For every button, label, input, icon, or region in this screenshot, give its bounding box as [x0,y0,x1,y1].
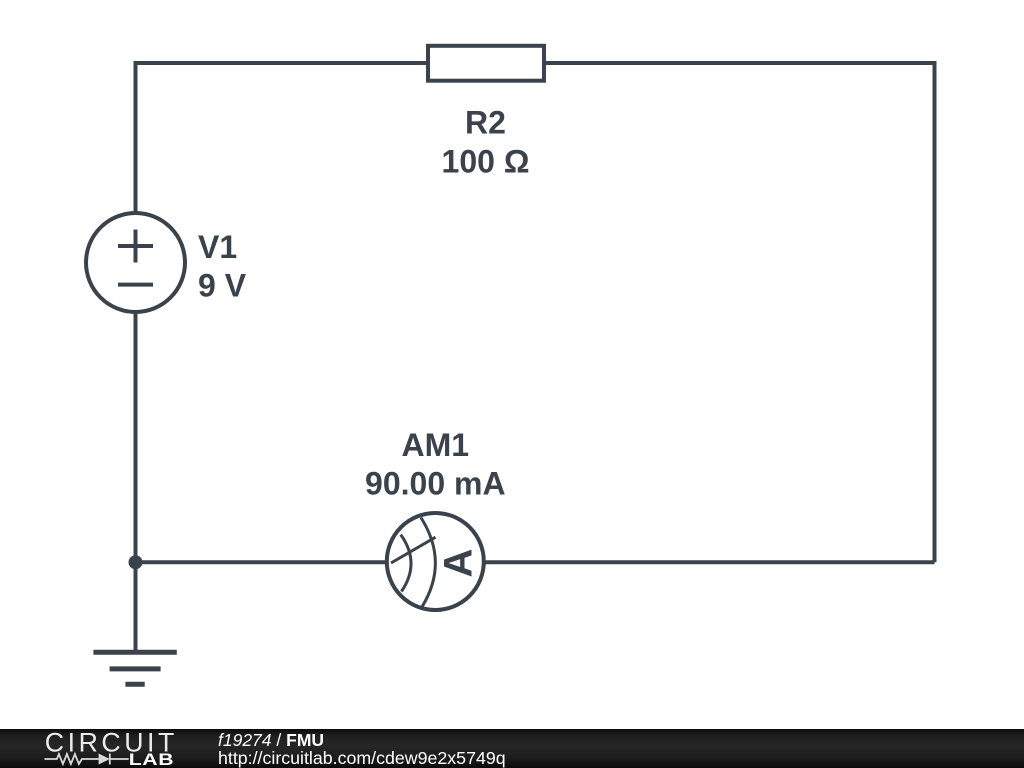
svg-text:A: A [437,549,481,578]
wire bottom-right segment [484,560,935,564]
wire top-left segment [136,61,429,65]
AM1 circle body [387,513,484,610]
footer text line 1 [218,732,324,750]
resistor R2 [428,46,544,81]
ground bar bottom [125,682,144,687]
svg-text:100 Ω: 100 Ω [442,143,530,179]
wire bottom-left segment [136,560,388,564]
node junction dot [129,555,143,569]
CircuitLab logo [30,720,230,768]
wire left vertical [134,61,138,652]
V1 plus sign (positive terminal) [118,230,153,263]
V1 circle body [86,213,185,312]
AM1 gauge scale outer arc [421,518,435,608]
wire top-right segment [544,61,935,65]
footer text line 2 [218,750,506,768]
ground bar middle [110,666,161,671]
svg-text:9 V: 9 V [198,268,247,304]
svg-text:V1: V1 [198,229,237,265]
ammeter AM1 [387,513,484,610]
svg-text:LAB: LAB [129,751,175,768]
voltage source V1 [86,213,185,312]
logo diode triangle [99,754,110,765]
ground [93,652,176,684]
ground bar top [93,650,176,655]
wire right vertical [933,61,937,562]
AM1 gauge needle [391,537,436,563]
footer bar [0,729,1024,768]
svg-text:AM1: AM1 [402,427,470,463]
V1 minus sign (negative terminal) [118,283,153,287]
svg-text:R2: R2 [465,105,506,141]
svg-text:90.00 mA: 90.00 mA [365,466,506,502]
AM1 gauge scale inner arc [401,535,411,592]
logo resistor zigzag and wire [45,754,129,765]
